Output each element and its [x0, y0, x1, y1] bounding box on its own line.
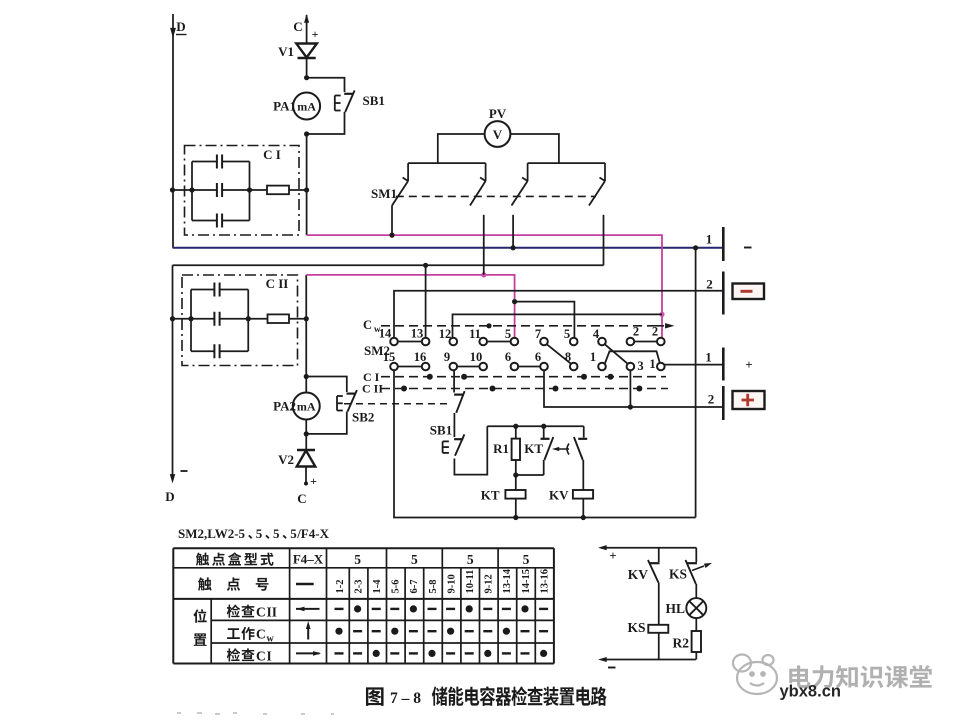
- C I series resistor (discharge): [250, 186, 307, 195]
- svg-text:V2: V2: [278, 452, 294, 467]
- wire C II riser to pink bus: [305, 275, 307, 319]
- svg-text:F4–X: F4–X: [293, 552, 324, 567]
- table marks row: check C II: [335, 605, 549, 612]
- wire R2 to bottom rail: [695, 652, 697, 660]
- switch SM1 contact 2: [470, 163, 486, 275]
- svg-text:C: C: [363, 318, 372, 332]
- svg-text:KS: KS: [669, 567, 687, 582]
- C I parallel capacitors: [192, 155, 250, 228]
- svg-text:6: 6: [505, 350, 511, 364]
- svg-text:10-11: 10-11: [465, 570, 476, 594]
- wire SM1 left bar: [408, 162, 486, 164]
- svg-text:C II: C II: [362, 382, 383, 396]
- wire KS contact to lamp: [695, 584, 697, 598]
- label - (signal supply): [608, 667, 616, 669]
- svg-text:5: 5: [523, 552, 530, 567]
- svg-text:5: 5: [354, 552, 361, 567]
- junction R1 top: [513, 424, 518, 429]
- svg-text:5-8: 5-8: [428, 580, 439, 594]
- indicator box plus (red): [733, 391, 765, 409]
- svg-text:1-2: 1-2: [335, 580, 346, 594]
- junction pink bus B with 5-5 bridge: [512, 299, 517, 304]
- bridge contacts 14-13: [398, 341, 422, 343]
- svg-text:+: +: [609, 548, 616, 563]
- junction KV coil bottom: [581, 515, 586, 520]
- junction KT contact top: [541, 424, 546, 429]
- wire R1/KT junction: [513, 460, 544, 490]
- terminal bar 1-: [722, 227, 725, 261]
- svg-text:SM2,LW2-5: SM2,LW2-5: [178, 526, 246, 541]
- svg-text:D: D: [165, 489, 174, 504]
- wire contact 12 link to pink bus A: [453, 314, 663, 338]
- node D (bottom lead): [170, 265, 175, 483]
- svg-text:mA: mA: [297, 100, 316, 114]
- terminal bar 1+: [722, 348, 725, 381]
- svg-text:w: w: [267, 634, 275, 645]
- svg-text:D: D: [176, 19, 185, 34]
- svg-text:5: 5: [411, 552, 418, 567]
- diode V2: [297, 450, 316, 467]
- svg-text:12: 12: [439, 327, 452, 341]
- label C +: [293, 19, 318, 41]
- wire contact 3 drop: [629, 370, 631, 407]
- ammeter PA1: [293, 93, 320, 120]
- label D: [176, 19, 187, 35]
- wire lamp to R2: [695, 618, 697, 631]
- switch SM1 contact 3: [512, 163, 528, 248]
- wire contact 1 to terminal 1+: [665, 364, 724, 366]
- wire SB2 branch bottom: [306, 412, 347, 434]
- junction above PA2: [304, 374, 309, 379]
- svg-text:/F4-X: /F4-X: [296, 526, 329, 541]
- junction node above PA1: [304, 75, 309, 80]
- pin numbers SM2 bottom row: [383, 350, 656, 373]
- wire C II middle tap: [173, 318, 192, 320]
- svg-text:2: 2: [706, 277, 713, 292]
- svg-text:5: 5: [505, 327, 511, 341]
- svg-text:1: 1: [706, 232, 713, 247]
- junction dots C I wire: [170, 187, 309, 192]
- svg-text:2: 2: [633, 325, 639, 339]
- svg-text:C: C: [256, 627, 266, 642]
- svg-text:C: C: [256, 605, 266, 620]
- wire PV left arm: [438, 134, 485, 163]
- svg-text:13-16: 13-16: [539, 569, 550, 594]
- wire signal supply top rail: [598, 545, 696, 550]
- switch SM2 contact circles top row (Cw side): [390, 338, 664, 346]
- table marks row: work Cw: [335, 628, 548, 635]
- svg-text:10: 10: [470, 350, 483, 364]
- junction link line to contact 13: [423, 263, 428, 268]
- wire contact 13 riser: [425, 265, 427, 338]
- svg-text:KV: KV: [628, 567, 649, 582]
- node D (top left terminal line): [170, 14, 176, 248]
- wire SB1 to relay rail: [454, 426, 487, 474]
- svg-text:5: 5: [467, 552, 474, 567]
- indicator box minus (red): [733, 284, 765, 300]
- pushbutton SB1 (parallel with PA1): [335, 91, 355, 113]
- svg-text:1: 1: [705, 350, 712, 365]
- svg-text:13: 13: [411, 327, 424, 341]
- bridge diagonal 4-3: [605, 344, 628, 363]
- svg-text:V1: V1: [278, 44, 294, 59]
- svg-text:14-15: 14-15: [521, 569, 532, 594]
- svg-text:SB1: SB1: [363, 93, 385, 108]
- svg-text:15: 15: [383, 350, 396, 364]
- wire contact 6 to terminal 2+: [544, 370, 723, 407]
- junction pink bus A with contact-12 link: [659, 312, 664, 317]
- capacitor bank C II (dash-dot enclosure): [182, 275, 298, 366]
- diode V1: [296, 44, 317, 59]
- svg-text:PA2: PA2: [273, 399, 296, 414]
- bridge contacts 15-16: [398, 366, 422, 368]
- contact KV-chain (right): [574, 426, 587, 490]
- svg-text:9-12: 9-12: [484, 574, 495, 593]
- svg-text:KT: KT: [481, 488, 500, 503]
- svg-text:11: 11: [469, 327, 481, 341]
- svg-text:13-14: 13-14: [502, 568, 513, 593]
- capacitor bank C I (dash-dot enclosure): [185, 146, 300, 236]
- svg-text:7 – 8: 7 – 8: [390, 690, 421, 707]
- svg-text:5: 5: [290, 526, 297, 541]
- wire signal supply bottom rail: [598, 657, 696, 662]
- wire bridge over contacts 5-5: [515, 302, 575, 338]
- svg-text:R1: R1: [493, 441, 509, 456]
- table position arrows (F4-X column): [296, 607, 321, 656]
- wire contact 9 drop: [453, 370, 455, 392]
- svg-text:KV: KV: [549, 488, 569, 503]
- wire KS coil to bottom rail: [658, 633, 660, 660]
- junction below PA2: [304, 431, 309, 436]
- svg-text:1: 1: [649, 357, 655, 371]
- junction blue bus with SM1 contact 3: [510, 245, 515, 250]
- table row label: position (vertical): [193, 609, 206, 646]
- wire SB2 branch top: [306, 377, 347, 393]
- pushbutton SB2 (parallel with PA2): [337, 390, 357, 412]
- junction pink bus B with SM1 contact 2: [481, 272, 486, 277]
- svg-text:SM1: SM1: [371, 186, 397, 201]
- watermark mascot face: [733, 655, 777, 695]
- table row label: check C I: [227, 648, 272, 663]
- label Cw row: [363, 318, 381, 334]
- bridge diagonal 7-8: [547, 344, 571, 363]
- svg-text:7: 7: [535, 327, 541, 341]
- watermark text (gray): [789, 665, 810, 688]
- wire SM1 right bar: [528, 162, 605, 164]
- wire V1 to node: [306, 58, 308, 78]
- svg-text:5: 5: [564, 327, 570, 341]
- svg-text:ybx8.cn: ybx8.cn: [780, 683, 841, 701]
- relay coil KT: [505, 490, 525, 499]
- contact KS (signal relay, with flag): [686, 548, 713, 584]
- switch SB2 linkage (dashed): [344, 403, 450, 405]
- svg-text:9: 9: [444, 350, 450, 364]
- svg-text:I: I: [267, 648, 272, 663]
- wire relay bottom rail: [394, 371, 696, 518]
- bridge contacts 1-1 (hop over): [605, 351, 660, 363]
- terminal bar 2-: [722, 272, 725, 315]
- svg-text:KS: KS: [627, 620, 645, 635]
- wire terminal 2- feeder to contact 14: [394, 291, 723, 338]
- table row label: check C II: [227, 604, 277, 619]
- svg-text:HL: HL: [665, 601, 685, 616]
- wire PA1 down to C I tap: [306, 134, 308, 235]
- wire pink bus B (C II to SM2 contact 5): [306, 275, 514, 338]
- wire link line to SM1 contact 4 / contact 13: [173, 264, 604, 266]
- svg-text:KT: KT: [524, 441, 543, 456]
- table cell dash (F4-X contact number): [296, 583, 314, 585]
- wire between contacts: [453, 413, 455, 437]
- svg-text:2: 2: [708, 392, 715, 407]
- figure caption: [366, 686, 607, 707]
- svg-text:C: C: [297, 491, 306, 506]
- svg-text:C: C: [256, 648, 266, 663]
- ammeter PA2: [293, 393, 320, 420]
- node C (top terminal): [304, 14, 309, 43]
- svg-text:2: 2: [652, 325, 658, 339]
- svg-text:SB2: SB2: [352, 410, 374, 425]
- resistor R1: [512, 426, 520, 475]
- wire KV contact to KS coil: [658, 583, 660, 625]
- junction contact-3 drop on terminal 2+ wire: [628, 404, 633, 409]
- svg-text:5-6: 5-6: [391, 580, 402, 594]
- wire coils to bottom rail: [516, 499, 584, 518]
- terminal bar 2+: [722, 386, 725, 420]
- switch SB2-linked contact (on contact-9 chain): [454, 391, 465, 413]
- wire SB1 branch bottom: [307, 112, 345, 134]
- svg-text:+: +: [312, 27, 319, 41]
- wire relay top rail: [487, 425, 583, 427]
- pushbutton SB1 contact (lower): [443, 434, 465, 455]
- label minus polarity: [744, 247, 752, 249]
- table marks row: check C I: [335, 650, 548, 657]
- svg-text:1-4: 1-4: [372, 579, 383, 594]
- wire C I middle tap: [173, 189, 193, 191]
- svg-text:3: 3: [637, 359, 643, 373]
- switch SM2 position line Cw (dashed with arrow): [381, 323, 675, 328]
- switch SM2 position line C I (dashed with dots): [381, 374, 666, 380]
- switch SM2 contact circles bottom row: [390, 363, 664, 371]
- junction node below PA1: [304, 131, 309, 136]
- junction KT coil bottom: [513, 515, 518, 520]
- relay coil KV: [573, 490, 593, 499]
- table header cells: 5 5 5 5: [354, 552, 529, 567]
- table rotated contact-pair numbers: [335, 568, 551, 593]
- svg-text:6: 6: [535, 350, 541, 364]
- label C + (bottom): [297, 474, 317, 506]
- switch SM1 linkage (dashed): [396, 195, 596, 197]
- switch SM1 contact 4: [589, 163, 605, 265]
- table header cell: contact box type: [196, 553, 209, 566]
- svg-text:V: V: [493, 127, 503, 142]
- svg-text:5: 5: [273, 526, 280, 541]
- bridge contacts 6-6: [518, 366, 540, 368]
- table title SM2,LW2 type: [178, 526, 330, 541]
- svg-text:4: 4: [593, 327, 600, 341]
- delay arrow symbol: [552, 444, 569, 455]
- relay coil KS: [648, 625, 668, 633]
- svg-text:C II: C II: [266, 276, 289, 291]
- svg-text:+: +: [745, 357, 752, 372]
- contact KT (delayed): [541, 426, 554, 460]
- junction dots C II wire: [170, 316, 309, 321]
- table header cell: contact number: [198, 577, 269, 590]
- svg-text:C I: C I: [263, 147, 281, 162]
- svg-text:9-10: 9-10: [446, 574, 457, 593]
- wire PA2 to V2: [305, 420, 307, 450]
- svg-text:C: C: [293, 19, 302, 34]
- bottom page text remnant (cut off): [177, 713, 334, 714]
- svg-text:1: 1: [590, 350, 596, 364]
- svg-text:2-3: 2-3: [353, 580, 364, 594]
- svg-text:5: 5: [256, 526, 263, 541]
- wire C II tap down to PA2: [305, 319, 307, 393]
- bridge contacts 11-5: [487, 341, 511, 343]
- contact KV (normally open): [648, 548, 660, 583]
- C II parallel capacitors: [191, 283, 248, 359]
- label D - (bottom): [165, 471, 187, 504]
- junction pink bus A with SM1 contact 1: [389, 233, 394, 238]
- switch SM1 contact 1: [392, 163, 408, 235]
- resistor R2: [692, 631, 701, 652]
- junction blue bus with relay return riser: [693, 245, 698, 250]
- svg-text:II: II: [267, 605, 278, 620]
- switch SM2 position line C II (dashed with dots): [381, 386, 668, 392]
- wire negative bus (dark blue) to terminal 1-: [173, 247, 724, 249]
- svg-text:PA1: PA1: [273, 99, 296, 114]
- svg-text:+: +: [310, 474, 317, 488]
- wire pink bus A (C I to SM2 contact 2): [307, 235, 662, 338]
- svg-text:PV: PV: [489, 106, 507, 121]
- bridge contacts 9-10: [457, 366, 479, 368]
- table contact-box frame: [173, 548, 554, 663]
- svg-text:16: 16: [414, 350, 427, 364]
- svg-text:14: 14: [379, 327, 392, 341]
- svg-text:mA: mA: [297, 400, 316, 414]
- wire SB1 branch top: [307, 78, 345, 92]
- pin numbers SM2 top row: [379, 325, 658, 342]
- svg-text:6-7: 6-7: [409, 580, 420, 594]
- C II series resistor (discharge): [248, 314, 306, 323]
- node C (bottom lead): [304, 467, 308, 486]
- wire relay return riser: [695, 248, 697, 518]
- voltmeter PV: [485, 121, 511, 147]
- wire PV right arm: [510, 134, 559, 163]
- table row label: work Cw: [227, 627, 274, 645]
- bridge contacts 2-2: [634, 341, 657, 343]
- lamp HL: [686, 598, 706, 618]
- svg-text:SB1: SB1: [430, 423, 452, 438]
- svg-text:R2: R2: [673, 636, 690, 651]
